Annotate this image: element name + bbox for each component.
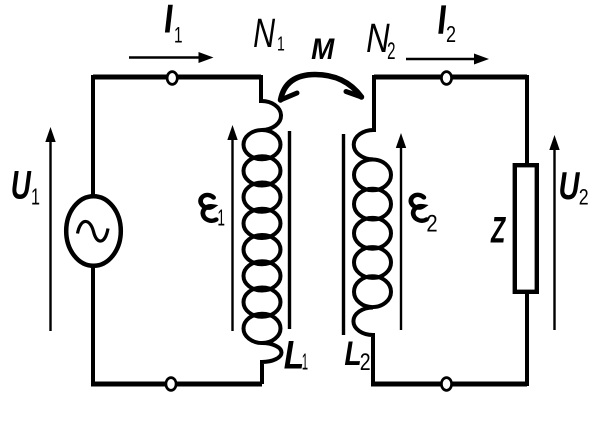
svg-text:L: L bbox=[284, 333, 305, 377]
svg-text:N: N bbox=[366, 15, 390, 60]
arrow EMF e1 bbox=[227, 125, 237, 331]
wire: right loop top bbox=[374, 75, 527, 80]
svg-text:N: N bbox=[253, 11, 275, 56]
wire: left loop left side upper bbox=[91, 75, 95, 197]
terminal bottom-left bbox=[166, 378, 176, 391]
svg-text:2: 2 bbox=[446, 22, 456, 48]
core bar right bbox=[342, 134, 345, 335]
svg-text:M: M bbox=[311, 33, 335, 66]
AC source sine symbol bbox=[78, 221, 109, 241]
wire: left loop right side top jog into coil bbox=[261, 75, 281, 130]
svg-text:2: 2 bbox=[426, 210, 437, 237]
AC source U1 bbox=[66, 196, 121, 266]
label EMF e1 bbox=[201, 195, 217, 221]
svg-text:U: U bbox=[11, 164, 32, 208]
secondary coil L2 bbox=[354, 160, 391, 308]
svg-text:1: 1 bbox=[31, 185, 40, 210]
label I2 bbox=[438, 5, 446, 33]
svg-text:Z: Z bbox=[490, 209, 506, 251]
terminal top-left bbox=[167, 72, 177, 85]
terminal bottom-right bbox=[441, 378, 451, 391]
wire: right loop right side lower bbox=[525, 292, 529, 386]
svg-text:2: 2 bbox=[387, 38, 395, 64]
load Z box bbox=[515, 165, 537, 292]
wire: left loop top bbox=[93, 75, 261, 80]
svg-text:1: 1 bbox=[302, 349, 308, 374]
svg-text:1: 1 bbox=[217, 205, 225, 230]
primary coil L1 bbox=[244, 130, 281, 343]
svg-text:1: 1 bbox=[174, 24, 183, 48]
svg-text:2: 2 bbox=[579, 186, 589, 210]
svg-text:2: 2 bbox=[360, 348, 371, 375]
wire: left loop right side bottom jog from coil bbox=[262, 343, 282, 384]
core bar left bbox=[288, 131, 291, 329]
terminal top-right bbox=[441, 72, 451, 85]
wire: left loop left side lower bbox=[91, 265, 95, 384]
svg-text:1: 1 bbox=[277, 32, 285, 55]
wire: right loop left side bottom jog from coil bbox=[353, 308, 373, 385]
svg-text:U: U bbox=[559, 165, 581, 208]
arrow U2 bbox=[549, 135, 559, 330]
label I1 bbox=[165, 5, 173, 33]
wire: right loop right side upper bbox=[525, 75, 529, 166]
wire: right loop bottom bbox=[371, 382, 527, 387]
mutual coupling arrow M bbox=[281, 75, 362, 101]
wire: right loop left side top jog into coil bbox=[354, 75, 374, 159]
wire: left loop bottom bbox=[91, 382, 262, 387]
arrow I2 bbox=[406, 54, 489, 65]
arrow I1 bbox=[129, 52, 214, 63]
arrow U1 bbox=[45, 127, 55, 331]
label EMF e2 bbox=[411, 195, 427, 221]
arrow EMF e2 bbox=[396, 133, 406, 330]
